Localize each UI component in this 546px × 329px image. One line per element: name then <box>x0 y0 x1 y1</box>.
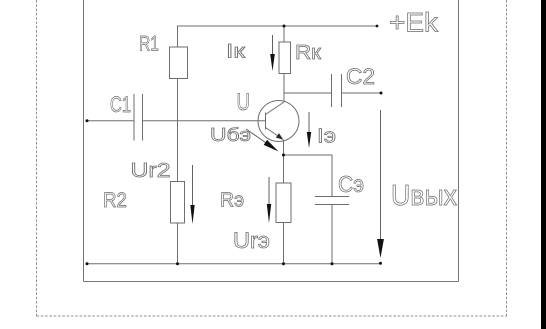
wire collector branch top <box>283 26 285 42</box>
svg-text:Iэ: Iэ <box>317 125 336 148</box>
resistor Re <box>276 183 291 223</box>
resistor R2 <box>171 182 185 224</box>
node dot bottom output <box>379 262 382 265</box>
wire R1 to R2 through base node <box>177 79 179 182</box>
wire Rk bottom to collector <box>283 74 285 103</box>
node dot bottom input <box>86 262 89 265</box>
node dot bottom Ce <box>331 262 334 265</box>
svg-text:C1: C1 <box>110 92 131 117</box>
wire input to C1 <box>87 120 134 122</box>
node dot input top <box>86 119 89 122</box>
current arrow Ie <box>307 112 311 148</box>
emitter arrowhead <box>276 133 284 140</box>
svg-text:Cэ: Cэ <box>338 171 364 197</box>
capacitor C2 <box>332 74 342 107</box>
voltage arrow Ure <box>267 177 271 223</box>
node dot output after C2 <box>380 92 383 95</box>
node dot bottom Re <box>282 262 285 265</box>
wire emitter node to Ce branch <box>284 155 333 197</box>
svg-text:Rк: Rк <box>295 41 322 64</box>
wire bottom return rail <box>87 263 381 265</box>
wire top supply rail <box>178 26 378 47</box>
resistor Rk <box>279 42 291 74</box>
svg-text:+Ek: +Ek <box>389 8 439 38</box>
wire Ce bottom <box>331 205 333 264</box>
svg-text:C2: C2 <box>346 64 375 89</box>
voltage arrow Uvyh output <box>377 110 384 258</box>
resistor R1 <box>170 47 188 79</box>
wire emitter <box>283 140 285 156</box>
svg-text:Iк: Iк <box>226 41 246 63</box>
wire R2 bottom <box>177 223 179 264</box>
capacitor Ce <box>315 197 349 205</box>
current arrow Ik <box>270 35 275 71</box>
node dot supply rail end <box>376 25 379 28</box>
wire C1 to base <box>143 120 266 122</box>
svg-text:Uвых: Uвых <box>391 180 457 212</box>
svg-text:Ur2: Ur2 <box>131 160 171 182</box>
node dot bottom R2 <box>176 262 179 265</box>
voltage arrow Ube <box>246 129 279 152</box>
svg-text:Uбэ: Uбэ <box>210 124 251 145</box>
wire C2 to output node <box>342 92 382 94</box>
svg-text:R2: R2 <box>103 189 127 212</box>
svg-text:Urэ: Urэ <box>233 228 270 253</box>
node dot emitter junction <box>282 154 285 157</box>
capacitor C1 <box>134 94 143 141</box>
wire Re bottom <box>283 223 285 264</box>
transistor U <box>258 101 299 142</box>
voltage arrow Ur2 <box>190 165 194 224</box>
node dot supply rail junction <box>283 25 286 28</box>
svg-text:Rэ: Rэ <box>220 189 244 212</box>
svg-text:R1: R1 <box>139 33 159 56</box>
wire collector node to C2 <box>284 92 332 94</box>
svg-text:U: U <box>237 89 251 116</box>
wire emitter node to Re <box>283 155 285 183</box>
